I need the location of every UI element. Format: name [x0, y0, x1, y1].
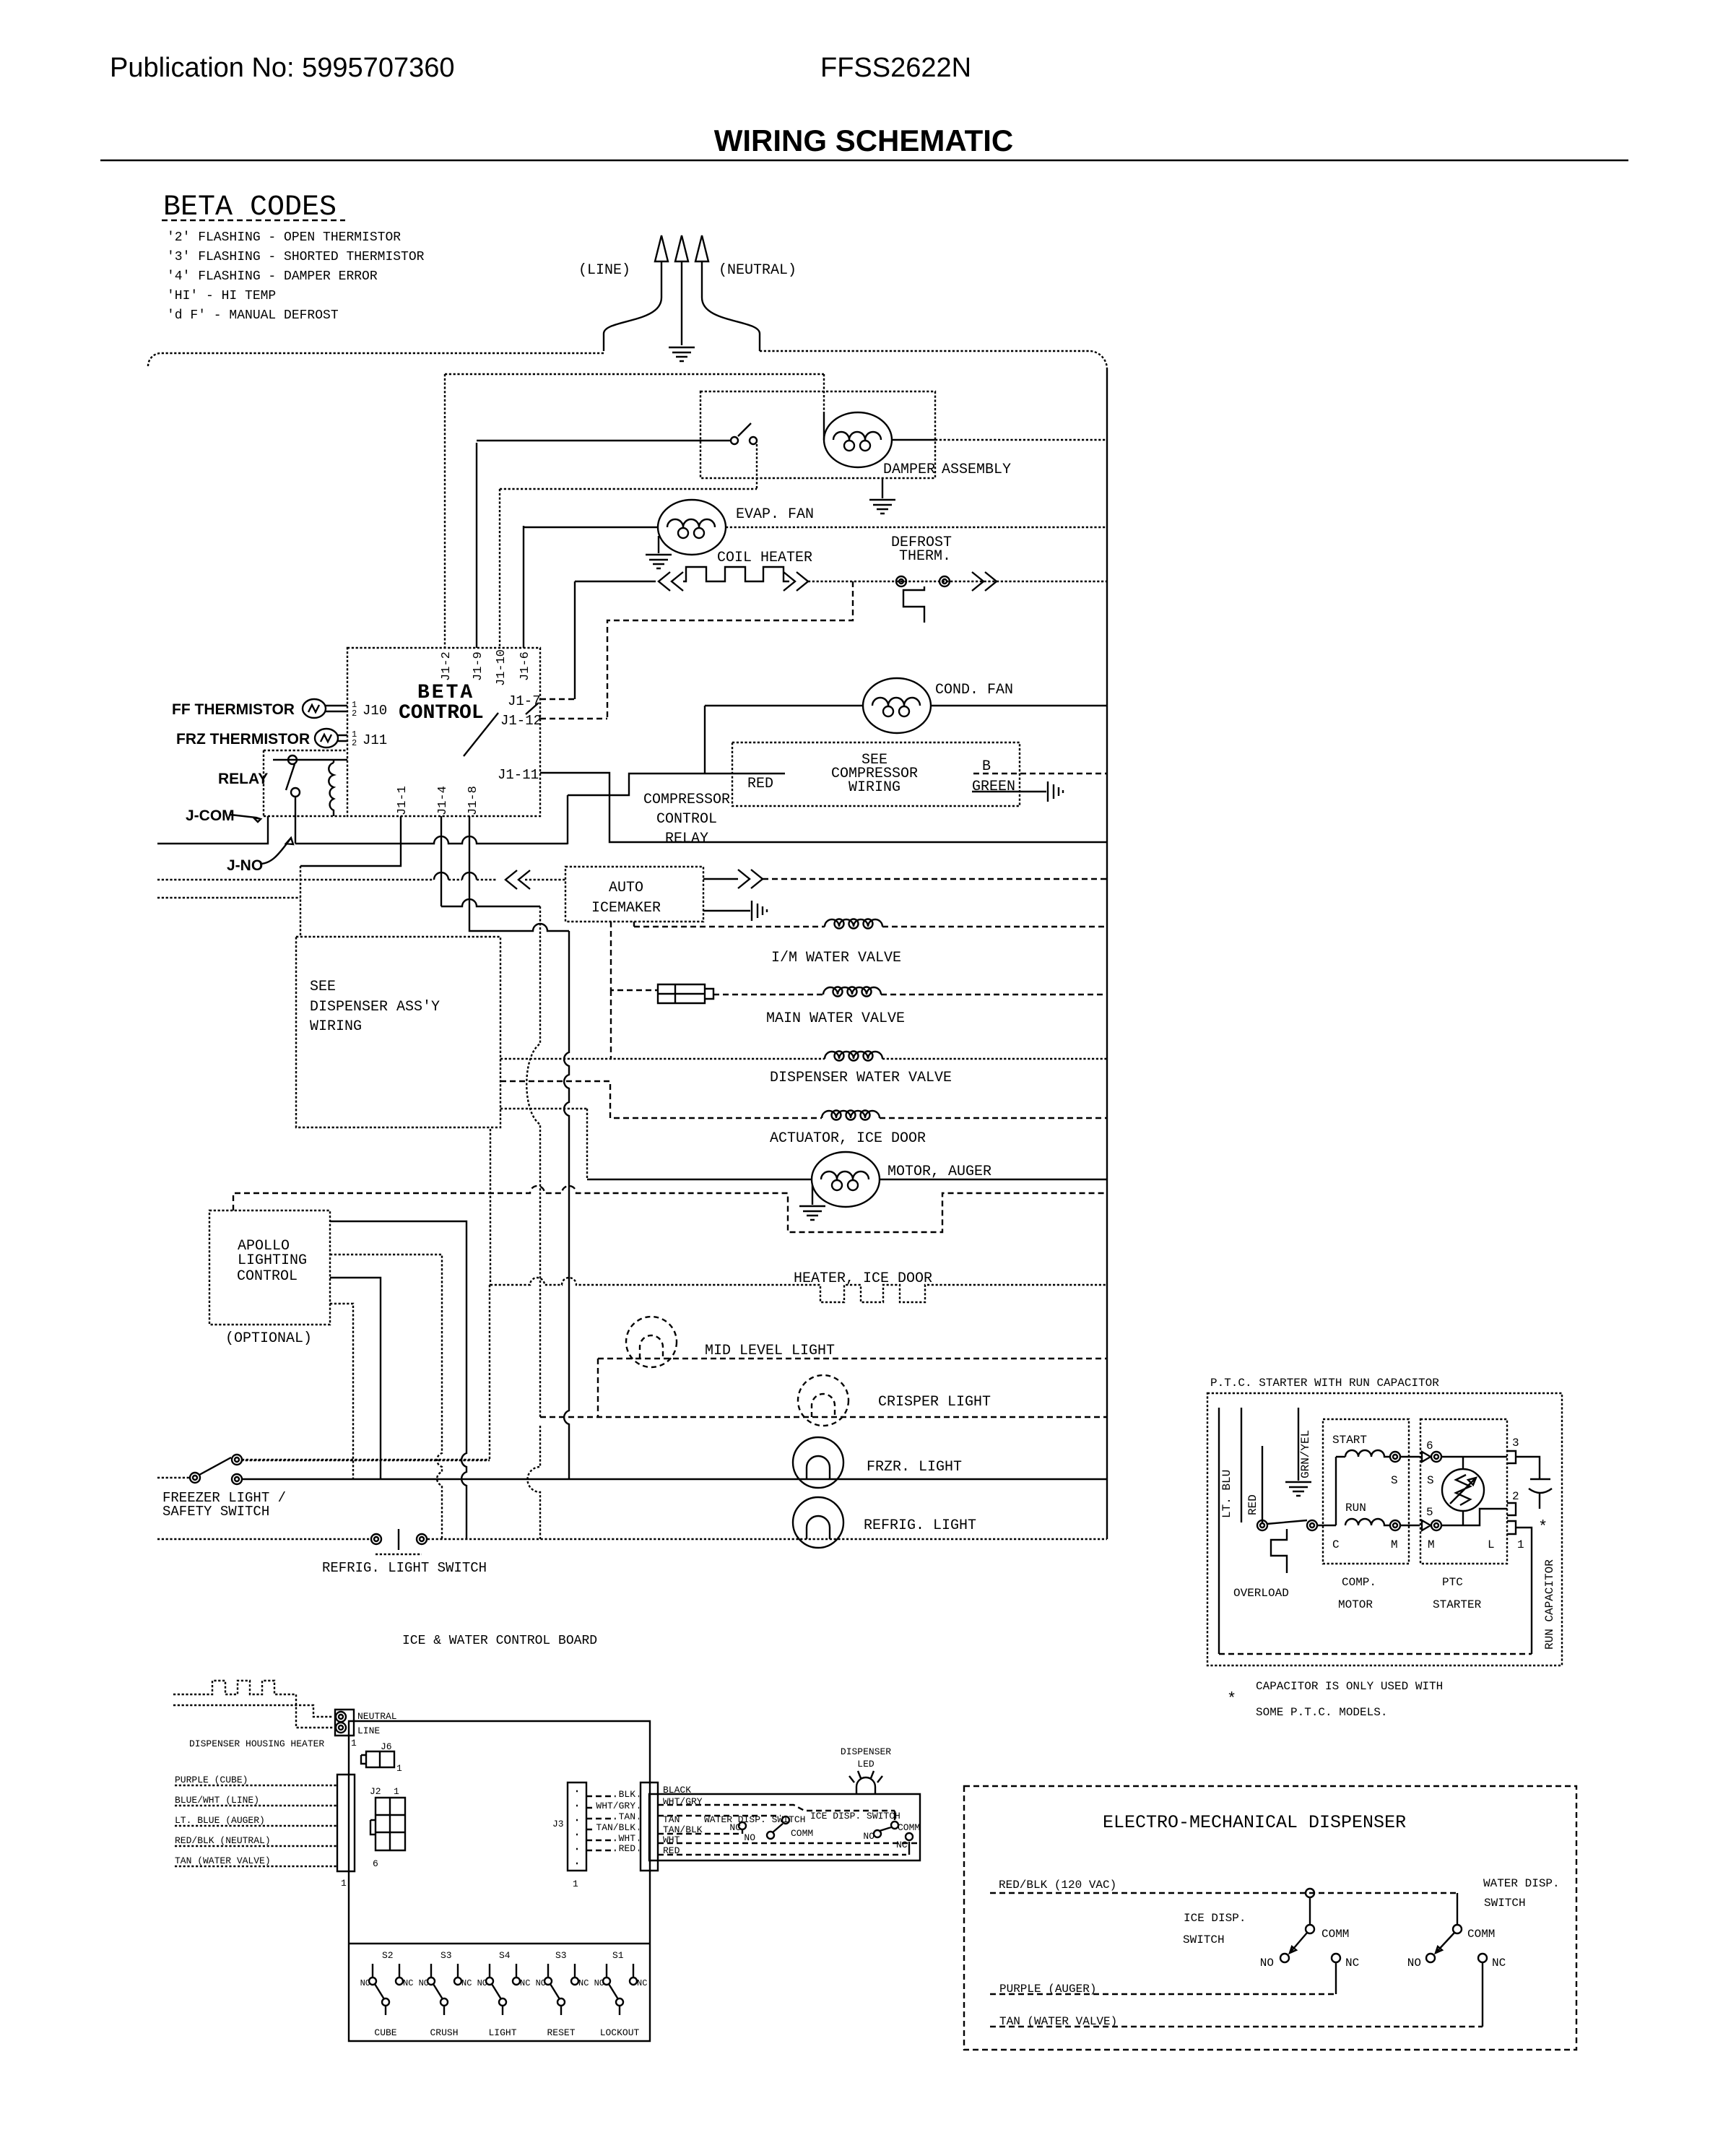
svg-text:J10: J10 [363, 703, 387, 719]
svg-text:S3: S3 [555, 1950, 567, 1961]
svg-text:STARTER: STARTER [1433, 1598, 1482, 1611]
svg-text:J1-11: J1-11 [498, 767, 539, 783]
svg-text:J-COM: J-COM [186, 807, 235, 824]
svg-text:NEUTRAL: NEUTRAL [357, 1711, 397, 1722]
svg-text:RELAY: RELAY [665, 831, 708, 847]
svg-text:J1-4: J1-4 [436, 786, 450, 815]
svg-text:WIRING SCHEMATIC: WIRING SCHEMATIC [714, 124, 1014, 157]
svg-text:P.T.C. STARTER WITH RUN CAPACI: P.T.C. STARTER WITH RUN CAPACITOR [1210, 1377, 1439, 1390]
svg-text:M: M [1428, 1538, 1435, 1551]
svg-text:BETA CODES: BETA CODES [163, 191, 337, 224]
svg-text:FFSS2622N: FFSS2622N [820, 53, 971, 83]
svg-text:RED: RED [1246, 1494, 1259, 1515]
svg-text:'4' FLASHING - DAMPER ERROR: '4' FLASHING - DAMPER ERROR [167, 269, 378, 284]
svg-text:LIGHTING: LIGHTING [238, 1252, 307, 1269]
svg-text:WATER DISP.: WATER DISP. [1483, 1877, 1560, 1890]
svg-text:GRN/YEL: GRN/YEL [1299, 1430, 1312, 1478]
svg-text:RED/BLK (NEUTRAL): RED/BLK (NEUTRAL) [175, 1835, 271, 1846]
svg-text:NC: NC [637, 1978, 647, 1988]
svg-text:'2' FLASHING - OPEN THERMISTOR: '2' FLASHING - OPEN THERMISTOR [167, 230, 401, 245]
svg-text:AUTO: AUTO [609, 880, 643, 896]
svg-text:PURPLE (CUBE): PURPLE (CUBE) [175, 1775, 248, 1785]
svg-text:RESET: RESET [547, 2027, 575, 2038]
svg-text:NC: NC [729, 1822, 741, 1833]
svg-text:DISPENSER ASS'Y: DISPENSER ASS'Y [310, 999, 440, 1015]
svg-text:I/M WATER VALVE: I/M WATER VALVE [771, 950, 901, 966]
svg-text:PURPLE (AUGER): PURPLE (AUGER) [999, 1983, 1096, 1996]
svg-text:J1-12: J1-12 [500, 713, 542, 729]
svg-text:MID LEVEL LIGHT: MID LEVEL LIGHT [705, 1343, 835, 1359]
svg-text:RUN CAPACITOR: RUN CAPACITOR [1543, 1559, 1556, 1650]
svg-text:COMM: COMM [1321, 1928, 1349, 1941]
svg-text:HEATER, ICE DOOR: HEATER, ICE DOOR [794, 1270, 932, 1287]
svg-text:MOTOR: MOTOR [1338, 1598, 1373, 1611]
svg-text:FF THERMISTOR: FF THERMISTOR [172, 701, 295, 718]
svg-text:CRISPER LIGHT: CRISPER LIGHT [878, 1394, 991, 1411]
svg-text:RED: RED [663, 1845, 680, 1856]
svg-text:'3' FLASHING - SHORTED THERMIS: '3' FLASHING - SHORTED THERMISTOR [167, 250, 425, 264]
svg-text:COMM: COMM [898, 1822, 920, 1833]
svg-text:DISPENSER: DISPENSER [841, 1746, 891, 1757]
svg-text:M: M [1391, 1538, 1398, 1551]
svg-text:J1-9: J1-9 [472, 651, 485, 681]
svg-text:BLUE/WHT (LINE): BLUE/WHT (LINE) [175, 1795, 259, 1806]
svg-text:(LINE): (LINE) [578, 262, 630, 279]
svg-text:CUBE: CUBE [374, 2027, 396, 2038]
svg-text:NO: NO [1260, 1957, 1274, 1970]
svg-text:LT. BLU: LT. BLU [1220, 1470, 1233, 1518]
svg-text:J1-8: J1-8 [466, 786, 480, 815]
svg-text:WHT/GRY: WHT/GRY [663, 1796, 703, 1807]
svg-text:2: 2 [352, 738, 357, 748]
svg-text:NO: NO [1407, 1957, 1421, 1970]
svg-text:NO: NO [863, 1831, 874, 1842]
svg-text:ICE & WATER CONTROL BOARD: ICE & WATER CONTROL BOARD [402, 1634, 597, 1648]
svg-text:REFRIG. LIGHT SWITCH: REFRIG. LIGHT SWITCH [322, 1560, 487, 1576]
svg-text:J1-1: J1-1 [396, 786, 409, 815]
svg-text:J-NO: J-NO [227, 857, 263, 874]
svg-text:REFRIG. LIGHT: REFRIG. LIGHT [864, 1517, 976, 1534]
svg-text:TAN/BLK: TAN/BLK [663, 1824, 703, 1835]
svg-text:SWITCH: SWITCH [1183, 1933, 1225, 1946]
svg-text:'HI' - HI TEMP: 'HI' - HI TEMP [167, 289, 276, 303]
svg-text:BETA: BETA [417, 682, 474, 704]
svg-text:COIL HEATER: COIL HEATER [717, 550, 812, 566]
svg-text:EVAP. FAN: EVAP. FAN [736, 506, 814, 523]
svg-text:J1-7: J1-7 [508, 693, 541, 709]
svg-text:S2: S2 [382, 1950, 394, 1961]
svg-text:SWITCH: SWITCH [1484, 1897, 1526, 1910]
svg-text:MAIN WATER VALVE: MAIN WATER VALVE [766, 1010, 905, 1027]
svg-text:S: S [1427, 1474, 1434, 1487]
svg-text:DISPENSER WATER VALVE: DISPENSER WATER VALVE [770, 1070, 952, 1086]
svg-text:ASSEMBLY: ASSEMBLY [942, 462, 1011, 478]
svg-text:CONTROL: CONTROL [656, 811, 717, 828]
svg-text:LT. BLUE (AUGER): LT. BLUE (AUGER) [175, 1815, 265, 1826]
svg-text:(OPTIONAL): (OPTIONAL) [225, 1330, 312, 1347]
svg-text:RELAY: RELAY [218, 771, 268, 787]
svg-text:NO: NO [360, 1978, 370, 1988]
svg-text:J1-6: J1-6 [518, 651, 532, 681]
svg-text:J2: J2 [370, 1786, 381, 1797]
svg-text:S1: S1 [612, 1950, 624, 1961]
svg-text:COND. FAN: COND. FAN [935, 682, 1013, 698]
svg-text:J11: J11 [363, 732, 387, 748]
svg-text:LED: LED [857, 1759, 874, 1769]
svg-text:START: START [1332, 1434, 1367, 1447]
svg-text:2: 2 [352, 709, 357, 719]
svg-text:1: 1 [341, 1878, 347, 1889]
svg-text:WHT: WHT [663, 1834, 680, 1845]
svg-text:NO: NO [744, 1832, 755, 1843]
svg-text:SOME P.T.C. MODELS.: SOME P.T.C. MODELS. [1256, 1706, 1387, 1719]
svg-text:BLACK: BLACK [663, 1785, 691, 1795]
svg-text:C: C [1332, 1538, 1340, 1551]
svg-text:COMP.: COMP. [1342, 1576, 1376, 1589]
svg-text:1: 1 [351, 1738, 357, 1749]
svg-text:'d F' - MANUAL DEFROST: 'd F' - MANUAL DEFROST [167, 308, 339, 323]
svg-text:S: S [1391, 1474, 1398, 1487]
svg-text:NC: NC [578, 1978, 589, 1988]
svg-text:LINE: LINE [357, 1725, 380, 1736]
svg-text:J6: J6 [381, 1741, 392, 1752]
svg-text:NC: NC [1492, 1957, 1506, 1970]
svg-text:COMM: COMM [1467, 1928, 1495, 1941]
svg-text:1: 1 [394, 1786, 399, 1797]
svg-text:LIGHT: LIGHT [488, 2027, 516, 2038]
svg-text:1: 1 [396, 1763, 402, 1774]
svg-text:RED/BLK (120 VAC): RED/BLK (120 VAC) [999, 1879, 1116, 1892]
svg-text:CRUSH: CRUSH [430, 2027, 458, 2038]
svg-text:(NEUTRAL): (NEUTRAL) [719, 262, 797, 279]
svg-text:DISPENSER HOUSING HEATER: DISPENSER HOUSING HEATER [189, 1738, 324, 1749]
svg-text:THERM.: THERM. [899, 548, 951, 565]
svg-text:CONTROL: CONTROL [237, 1268, 298, 1285]
svg-text:*: * [1538, 1518, 1548, 1536]
svg-text:NC: NC [461, 1978, 472, 1988]
svg-text:BLK: BLK [619, 1789, 636, 1800]
svg-text:COMPRESSOR: COMPRESSOR [643, 792, 730, 808]
svg-text:FRZ THERMISTOR: FRZ THERMISTOR [176, 731, 310, 748]
svg-text:TAN (WATER VALVE): TAN (WATER VALVE) [999, 2015, 1117, 2028]
svg-text:J1-10: J1-10 [495, 649, 508, 686]
svg-text:DAMPER: DAMPER [883, 462, 935, 478]
svg-text:CAPACITOR IS ONLY USED WITH: CAPACITOR IS ONLY USED WITH [1256, 1680, 1443, 1693]
svg-text:B: B [982, 758, 991, 775]
svg-text:RUN: RUN [1345, 1502, 1366, 1515]
svg-text:NC: NC [403, 1978, 413, 1988]
svg-text:5: 5 [1426, 1506, 1433, 1519]
svg-text:WIRING: WIRING [849, 779, 900, 796]
svg-text:OVERLOAD: OVERLOAD [1233, 1587, 1289, 1600]
svg-text:J1-2: J1-2 [440, 651, 453, 681]
svg-text:CONTROL: CONTROL [399, 702, 484, 724]
svg-text:ICEMAKER: ICEMAKER [591, 900, 661, 917]
svg-text:LOCKOUT: LOCKOUT [600, 2027, 640, 2038]
svg-text:SAFETY SWITCH: SAFETY SWITCH [162, 1504, 269, 1520]
svg-text:SEE: SEE [310, 979, 336, 995]
svg-text:L: L [1488, 1538, 1495, 1551]
svg-text:GREEN: GREEN [972, 779, 1015, 795]
svg-text:PTC: PTC [1442, 1576, 1463, 1589]
svg-text:ACTUATOR, ICE DOOR: ACTUATOR, ICE DOOR [770, 1130, 926, 1147]
svg-text:NO: NO [419, 1978, 429, 1988]
svg-text:NO: NO [477, 1978, 487, 1988]
svg-text:ICE DISP. SWITCH: ICE DISP. SWITCH [810, 1811, 900, 1821]
svg-text:Publication No: 5995707360: Publication No: 5995707360 [110, 53, 455, 83]
svg-text:3: 3 [1512, 1437, 1519, 1450]
svg-text:MOTOR, AUGER: MOTOR, AUGER [887, 1164, 991, 1180]
svg-text:6: 6 [373, 1858, 378, 1869]
svg-text:1: 1 [1517, 1538, 1524, 1551]
svg-text:NC: NC [520, 1978, 530, 1988]
svg-text:S4: S4 [499, 1950, 511, 1961]
svg-text:NC: NC [896, 1840, 908, 1850]
svg-text:6: 6 [1426, 1439, 1433, 1452]
svg-text:RED: RED [619, 1843, 636, 1854]
svg-text:WATER DISP. SWITCH: WATER DISP. SWITCH [704, 1814, 805, 1825]
svg-text:TAN: TAN [663, 1814, 680, 1825]
svg-text:NC: NC [1345, 1957, 1359, 1970]
svg-text:ELECTRO-MECHANICAL DISPENSER: ELECTRO-MECHANICAL DISPENSER [1103, 1812, 1406, 1833]
svg-text:NO: NO [536, 1978, 546, 1988]
svg-text:1: 1 [573, 1879, 578, 1889]
svg-text:*: * [1227, 1690, 1236, 1708]
svg-text:ICE DISP.: ICE DISP. [1184, 1912, 1246, 1925]
svg-text:RED: RED [747, 776, 773, 792]
svg-text:COMM: COMM [791, 1828, 813, 1839]
svg-text:2: 2 [1512, 1490, 1519, 1503]
svg-text:WIRING: WIRING [310, 1018, 362, 1035]
svg-text:J3: J3 [552, 1819, 564, 1829]
svg-text:NO: NO [594, 1978, 604, 1988]
svg-text:S3: S3 [440, 1950, 452, 1961]
svg-text:TAN (WATER VALVE): TAN (WATER VALVE) [175, 1855, 271, 1866]
svg-text:FRZR. LIGHT: FRZR. LIGHT [867, 1459, 962, 1476]
